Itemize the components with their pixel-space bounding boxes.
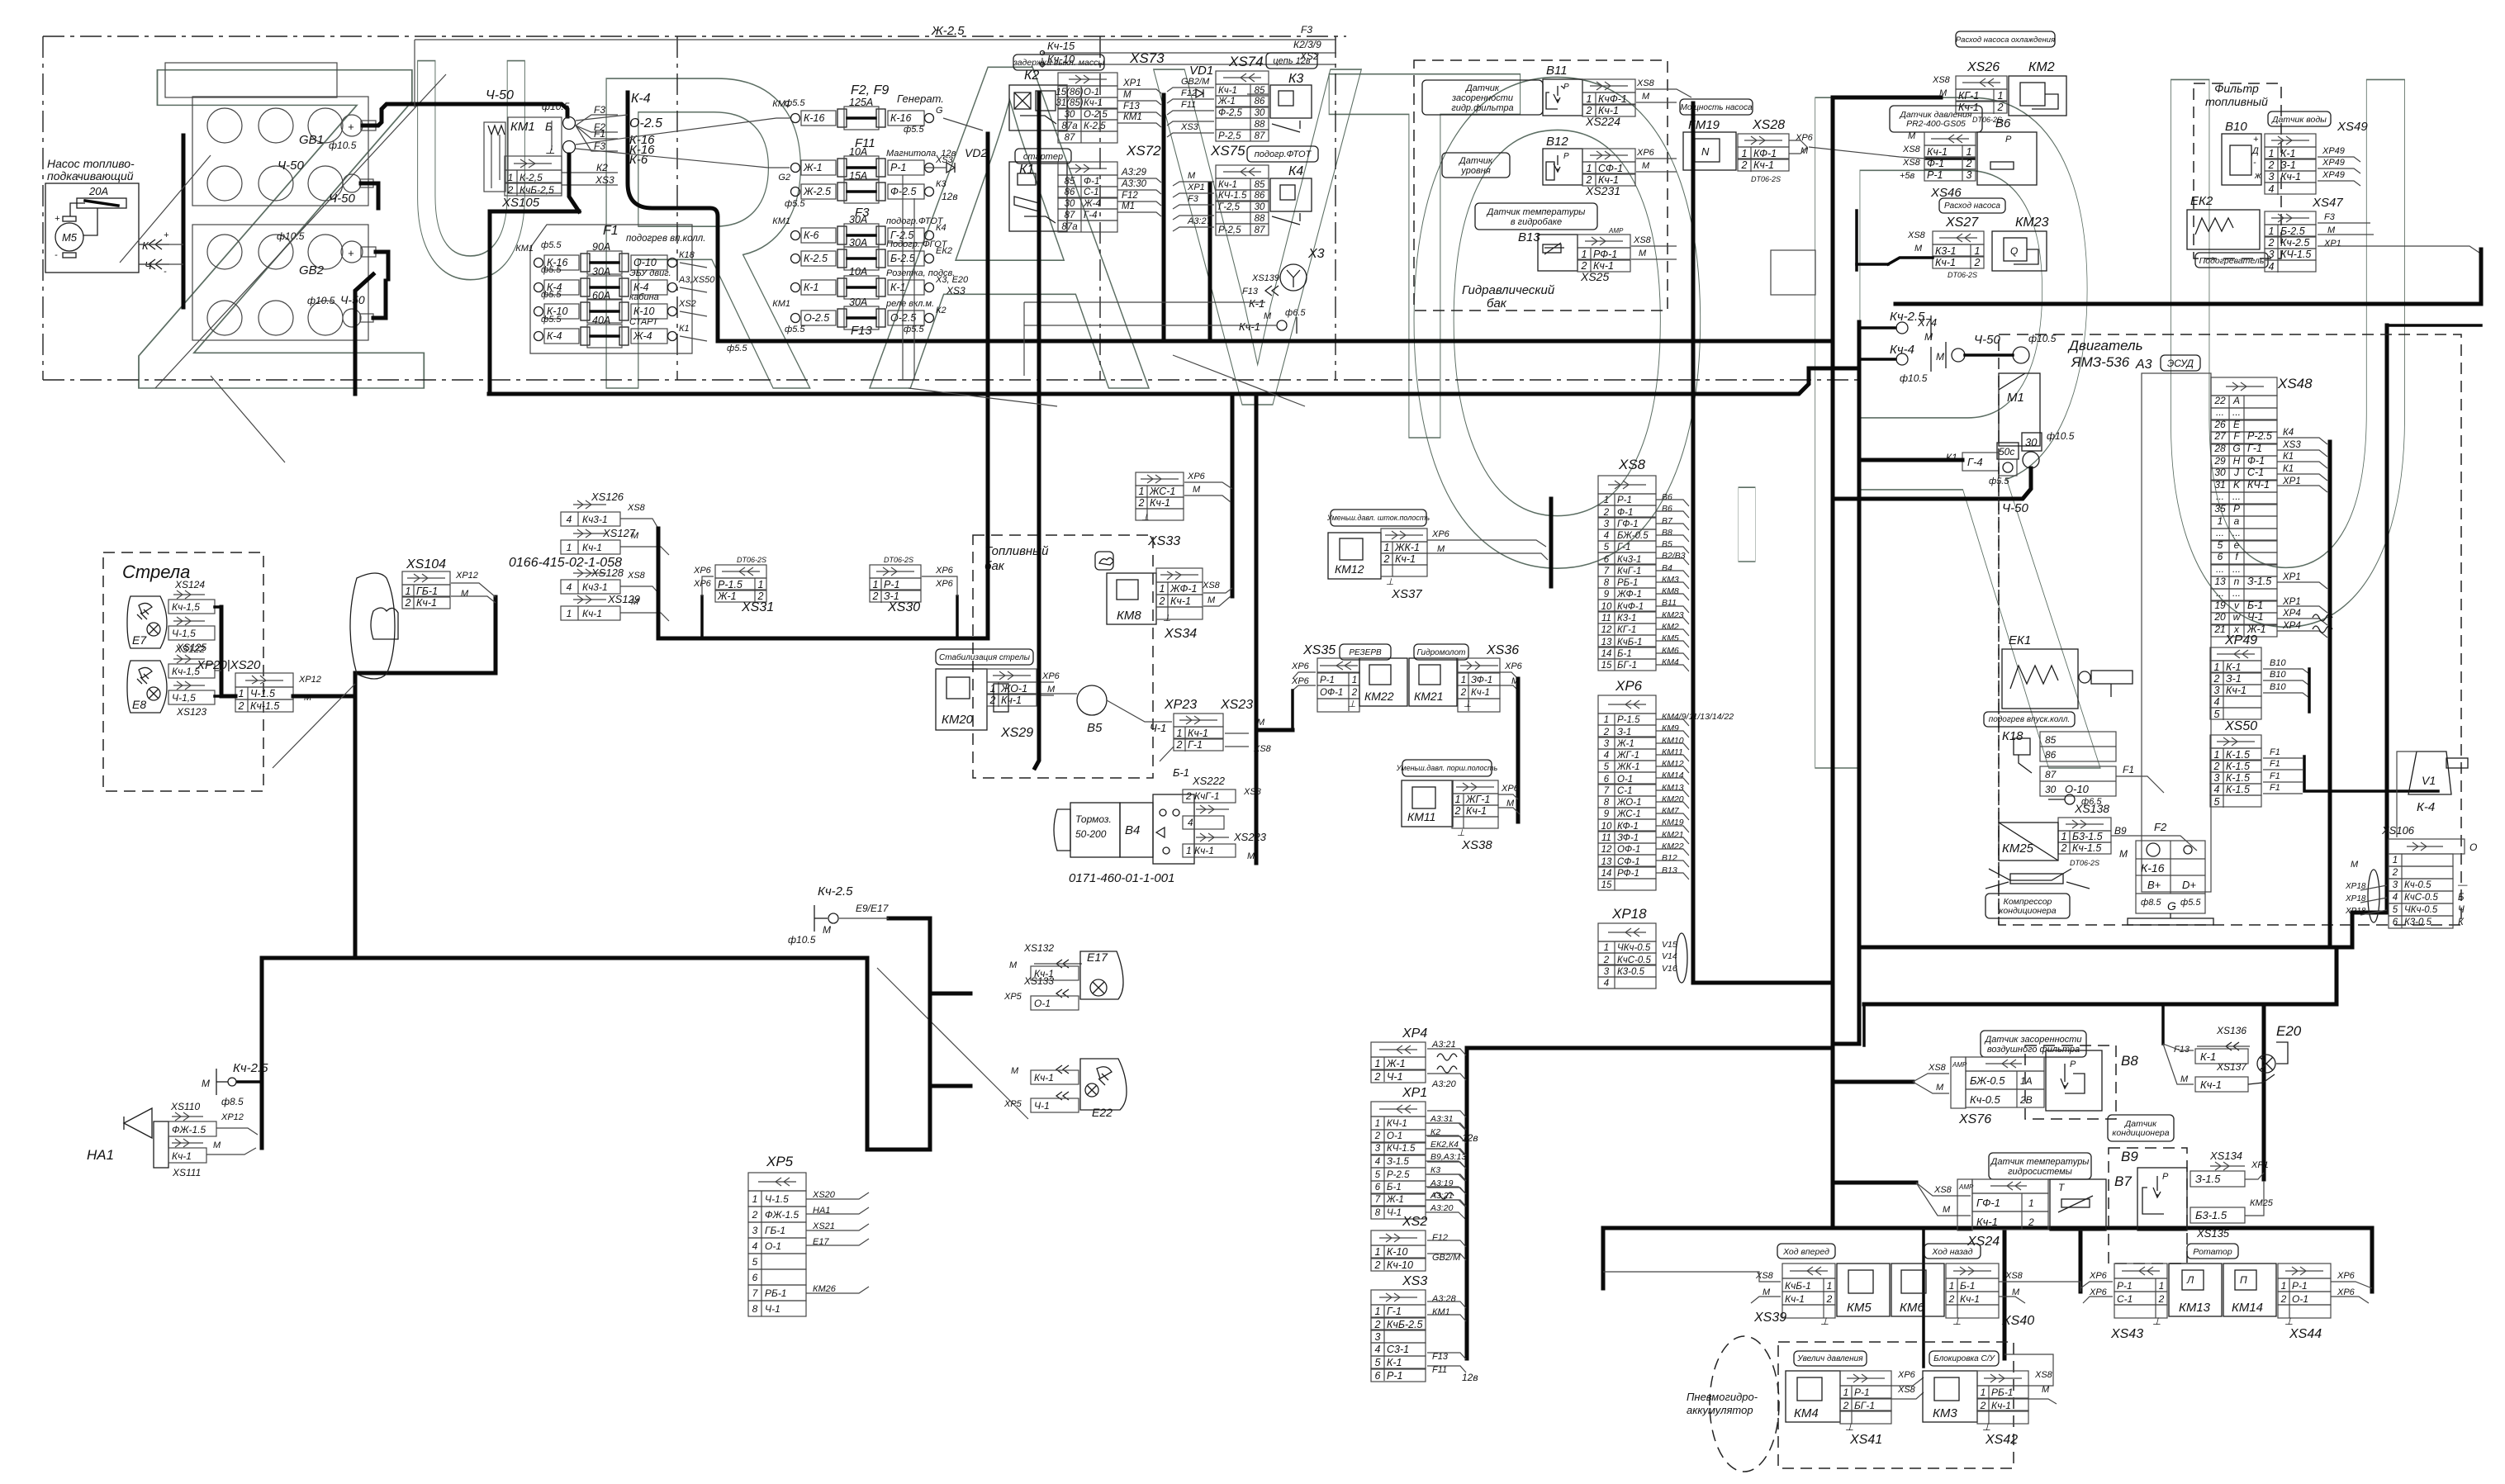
svg-text:К-1: К-1 [1387,1357,1402,1368]
svg-text:XS27: XS27 [1945,216,1979,230]
svg-text:2: 2 [1138,497,1145,509]
svg-text:2: 2 [1383,553,1390,565]
svg-text:2: 2 [1159,595,1165,607]
svg-text:воздушного фильтра: воздушного фильтра [1987,1045,2080,1055]
svg-text:12: 12 [1601,845,1612,855]
svg-text:НА1: НА1 [87,1147,114,1163]
svg-text:1: 1 [1587,93,1592,105]
label intake heater box [1984,712,2075,727]
svg-text:20: 20 [2213,611,2226,623]
svg-text:J: J [2233,467,2240,478]
svg-text:+: + [164,230,169,240]
svg-text:3: 3 [2393,880,2398,890]
svg-text:14: 14 [1601,869,1612,879]
svg-text:13: 13 [2214,576,2226,587]
svg-text:Б3-1.5: Б3-1.5 [2072,831,2103,842]
svg-text:В6: В6 [1662,492,1672,502]
svg-text:XS224: XS224 [1585,115,1620,128]
svg-text:З-1.5: З-1.5 [2247,576,2271,587]
svg-text:КЧ-1: КЧ-1 [2247,479,2270,491]
svg-text:М: М [1642,92,1650,102]
label cooling pump flow box [1956,31,2055,47]
svg-text:⊥: ⊥ [1952,1316,1961,1327]
svg-text:Л: Л [2186,1274,2194,1286]
svg-text:XS29: XS29 [1000,726,1033,740]
svg-text:КМ12: КМ12 [1662,759,1684,769]
pneumo dashed box [1778,1342,2014,1468]
svg-text:ХР6: ХР6 [1636,148,1655,158]
svg-text:КчБ-2,5: КчБ-2,5 [520,184,554,196]
svg-text:8: 8 [1604,798,1610,808]
starter motor M1 [1999,373,2040,446]
svg-text:ЭБУ двиг.: ЭБУ двиг. [629,268,671,278]
wire elbow to XS46 area [1855,211,1858,270]
circle f10.5 on M1 [2023,452,2039,468]
svg-text:Ч-50: Ч-50 [1974,333,2000,347]
wire stub XS43 drop [2079,1228,2083,1292]
svg-text:1: 1 [1604,943,1609,953]
svg-text:XS124: XS124 [174,579,205,590]
svg-text:F1: F1 [2123,764,2134,775]
svg-text:Ч-1: Ч-1 [765,1303,780,1315]
svg-text:СФ-1: СФ-1 [1598,163,1623,174]
svg-text:БГ-1: БГ-1 [1617,661,1637,671]
svg-text:ф5.5: ф5.5 [727,344,747,353]
svg-text:Кч-1: Кч-1 [2200,1079,2222,1091]
svg-text:В9: В9 [2114,825,2127,837]
wire XP20 row [221,695,235,699]
svg-text:Кч-2.5: Кч-2.5 [233,1061,268,1075]
svg-text:9: 9 [1604,590,1610,600]
svg-text:ф10.5: ф10.5 [1900,372,1928,384]
svg-text:2: 2 [1374,1131,1381,1141]
svg-text:В12: В12 [1662,853,1677,863]
wire stub E20 vertical [2161,1004,2165,1044]
svg-text:ЖФ-1: ЖФ-1 [1616,590,1642,600]
svg-text:...: ... [2232,527,2241,538]
svg-text:2: 2 [1374,1071,1381,1083]
fuse F1 row2 30A [534,283,543,292]
svg-text:АМР: АМР [1608,227,1624,235]
svg-text:XS137: XS137 [2216,1061,2247,1073]
svg-text:Кч-1: Кч-1 [172,1150,192,1162]
svg-text:ХР23: ХР23 [1164,698,1197,712]
svg-text:Двигатель: Двигатель [2067,338,2143,353]
svg-text:XS139: XS139 [1251,273,1279,283]
svg-text:XS105: XS105 [501,196,540,210]
svg-text:6: 6 [2393,917,2398,927]
svg-text:Б-1: Б-1 [1617,649,1632,659]
connector XS125 [173,620,205,622]
svg-text:Р-2,5: Р-2,5 [1218,225,1241,235]
svg-text:Кч-1: Кч-1 [1785,1293,1805,1305]
wire loop lamps E17 E22 [867,918,930,1150]
svg-text:М: М [823,924,831,936]
svg-text:2: 2 [1454,805,1461,817]
svg-text:ЖО-1: ЖО-1 [1000,683,1027,695]
svg-text:F2, F9: F2, F9 [851,83,889,97]
svg-text:КМ11: КМ11 [1407,810,1435,823]
svg-text:⊥: ⊥ [545,143,555,156]
svg-text:P: P [2233,503,2240,514]
valve KM22 [1359,658,1407,706]
svg-text:М: М [2042,1385,2050,1395]
svg-text:Кч-0.5: Кч-0.5 [2404,880,2431,890]
svg-text:подогр.ФТОТ: подогр.ФТОТ [1255,149,1312,159]
svg-text:XS50: XS50 [2224,719,2257,733]
svg-text:Q: Q [2010,245,2018,257]
svg-text:КМ1: КМ1 [772,216,790,226]
svg-text:XS41: XS41 [1849,1433,1882,1447]
svg-text:К-2,5: К-2,5 [520,172,543,183]
svg-text:10: 10 [1601,602,1612,612]
svg-text:М: М [461,589,469,599]
svg-text:Е17: Е17 [1087,951,1108,964]
fuel tank dashed box (Топливный бак) [973,535,1153,778]
svg-text:14: 14 [1601,649,1612,659]
svg-text:XS76: XS76 [1958,1112,1991,1126]
svg-text:V15: V15 [1662,940,1677,950]
svg-text:1: 1 [758,579,764,590]
svg-text:В10: В10 [2270,670,2286,680]
svg-text:реле вкл.м.: реле вкл.м. [885,299,934,309]
svg-text:М: М [1936,351,1944,363]
wire vertical x1196 lower [986,341,990,638]
svg-text:ф8.5: ф8.5 [2141,898,2161,908]
wire stub XS39 drop [1601,1228,1606,1288]
svg-text:К3: К3 [1288,72,1303,86]
connector XS40 [1946,1264,1999,1278]
mirror + connector XS104 [350,573,395,679]
svg-text:6: 6 [752,1272,758,1283]
svg-text:ХР1: ХР1 [2282,597,2301,607]
svg-text:F13: F13 [1432,1352,1449,1362]
svg-text:15: 15 [1601,880,1612,890]
fuel sender B5 [1077,685,1107,715]
svg-text:2: 2 [405,597,411,609]
svg-text:КМ3: КМ3 [1662,575,1679,585]
hydraulic tank dashed box (Гидравлический бак) [1414,60,1668,311]
svg-text:5: 5 [2214,796,2220,808]
svg-text:КчБ-1: КчБ-1 [1617,638,1642,647]
svg-text:2: 2 [1826,1293,1833,1305]
svg-text:1: 1 [2159,1280,2165,1292]
svg-text:Р: Р [2005,135,2012,145]
svg-text:А3:20: А3:20 [1430,1203,1454,1213]
svg-text:XS43: XS43 [2110,1327,2143,1341]
svg-text:О-10: О-10 [2065,783,2090,795]
svg-text:2: 2 [1843,1400,1849,1411]
svg-text:XS8: XS8 [1243,787,1262,797]
label air filter sensor box [1981,1031,2086,1057]
svg-text:в гидробаке: в гидробаке [1511,217,1562,227]
svg-text:К-1: К-1 [2226,661,2241,673]
svg-text:В4: В4 [1662,563,1672,573]
svg-text:К-4: К-4 [547,330,562,342]
svg-text:А3:31: А3:31 [1430,1114,1453,1124]
svg-text:КМ14: КМ14 [1662,770,1684,780]
wire Ch-50 drop from GB2 [355,274,373,394]
svg-text:XS8: XS8 [1636,78,1655,88]
svg-text:М: М [1437,544,1445,554]
svg-text:КМ8: КМ8 [1117,609,1141,623]
svg-text:30А: 30А [592,266,610,277]
svg-text:ф5.5: ф5.5 [541,315,562,325]
svg-text:86: 86 [1065,187,1075,197]
svg-text:D+: D+ [2182,879,2196,891]
svg-text:2: 2 [1741,159,1748,171]
svg-text:10А: 10А [849,266,867,277]
svg-text:19: 19 [2214,600,2226,611]
svg-text:М: М [1914,244,1923,254]
svg-text:КМ10: КМ10 [1662,736,1684,746]
svg-text:Г-1: Г-1 [1617,543,1630,552]
svg-text:Ф-1: Ф-1 [1927,158,1944,169]
connector XS38 [1452,780,1498,794]
fuse 30A FGOT [791,254,800,263]
svg-text:XS132: XS132 [1023,942,1054,954]
svg-text:Кч-1: Кч-1 [1976,1216,1998,1228]
svg-text:К2: К2 [1024,69,1039,83]
svg-text:Кч-1: Кч-1 [416,597,437,609]
svg-text:Р: Р [1563,152,1569,161]
svg-text:2: 2 [507,184,514,196]
label water sensor box [2268,111,2331,126]
svg-text:0171-460-01-1-001: 0171-460-01-1-001 [1069,871,1174,885]
svg-text:Ж-2.5: Ж-2.5 [931,24,965,38]
svg-text:ХР1: ХР1 [1187,183,1205,192]
label starter box (стартер) [1015,149,1071,164]
valve KM3 [1923,1371,1977,1422]
sensor B7 + connector XS24 [1957,1179,1972,1230]
svg-text:РФ-1: РФ-1 [1617,869,1639,879]
svg-text:КФ-1: КФ-1 [1753,148,1777,159]
svg-text:Г-2,5: Г-2,5 [1218,202,1241,212]
svg-text:Ж-2.5: Ж-2.5 [803,186,831,197]
svg-text:ОФ-1: ОФ-1 [1617,845,1640,855]
svg-text:засоренности: засоренности [1451,93,1513,103]
svg-text:1: 1 [1981,1387,1986,1398]
wire vertical x1878 KM12 feed [1549,499,1554,586]
svg-text:ХР1: ХР1 [2282,476,2301,486]
svg-text:Ф-1: Ф-1 [1617,508,1633,518]
svg-text:7: 7 [1604,786,1610,796]
brake switch B4 [1070,803,1120,857]
svg-text:КМ2: КМ2 [2028,60,2055,74]
svg-text:XS8: XS8 [1902,145,1921,154]
lamp E7 [127,596,167,648]
connector XS128 [573,572,606,574]
svg-text:К-2,5: К-2,5 [1084,121,1106,131]
svg-text:3: 3 [2269,171,2275,183]
svg-text:Ч-1: Ч-1 [1387,1208,1402,1218]
svg-text:К18: К18 [2002,729,2023,743]
svg-text:87: 87 [2045,769,2057,780]
svg-text:Р-1: Р-1 [2117,1280,2133,1292]
svg-text:Е22: Е22 [1092,1106,1113,1119]
label heater box [2195,253,2268,268]
svg-text:В5: В5 [1087,721,1103,735]
svg-text:ХР12: ХР12 [298,675,321,685]
svg-text:30: 30 [2025,436,2038,448]
svg-text:КЧ-1: КЧ-1 [1387,1119,1407,1129]
svg-text:К-1: К-1 [2280,148,2295,159]
svg-text:О-10: О-10 [633,257,657,268]
svg-text:ф5.5: ф5.5 [785,199,805,209]
svg-text:1: 1 [2393,856,2398,865]
svg-text:аккумулятор: аккумулятор [1687,1404,1753,1416]
svg-text:1: 1 [1742,148,1748,159]
svg-text:К-16: К-16 [890,112,911,124]
svg-text:ЕК2: ЕК2 [2190,194,2213,208]
svg-text:12в: 12в [1462,1372,1478,1383]
svg-text:V1: V1 [2422,774,2436,787]
svg-text:XS134: XS134 [2209,1150,2242,1162]
sensor B9 + XS134 XS135 [2109,1148,2187,1264]
wire Kch-2.5 stub X74 [1859,326,1895,330]
svg-text:12в: 12в [942,191,958,202]
bus wire y413 [718,339,1833,344]
svg-text:ЖО-1: ЖО-1 [1616,798,1641,808]
svg-text:Р-2.5: Р-2.5 [2247,430,2272,442]
svg-text:1: 1 [1375,1306,1381,1317]
svg-text:К-1.5: К-1.5 [2226,749,2250,761]
svg-text:ГБ-1: ГБ-1 [416,586,438,597]
svg-text:VD2: VD2 [965,146,987,159]
svg-text:1: 1 [990,683,996,695]
svg-text:1: 1 [1139,486,1145,497]
svg-text:Р-1: Р-1 [884,579,899,590]
svg-text:КМ1: КМ1 [1432,1307,1450,1317]
svg-text:Фильтр: Фильтр [2214,82,2259,95]
svg-text:3: 3 [1604,739,1610,749]
svg-text:F11: F11 [1181,100,1196,110]
fuse panel F1 outline [530,225,692,353]
svg-text:...: ... [2216,563,2224,575]
svg-text:В12: В12 [1546,135,1568,149]
svg-text:К2: К2 [936,306,946,315]
svg-text:XS8: XS8 [1897,1385,1916,1395]
svg-text:⊥: ⊥ [1982,1421,1990,1433]
svg-text:XS8: XS8 [1202,581,1221,590]
svg-text:ХР6: ХР6 [1795,133,1814,143]
connector XS224 [1582,79,1635,92]
motor M5 [55,223,83,251]
svg-text:1: 1 [567,542,572,553]
svg-text:К-4: К-4 [2417,800,2435,814]
svg-text:Р-1: Р-1 [2292,1280,2308,1292]
svg-text:Ч-1: Ч-1 [2247,611,2264,623]
svg-text:Насос топливо-: Насос топливо- [47,157,135,170]
svg-text:К-4: К-4 [631,92,651,106]
svg-text:О-1: О-1 [765,1240,781,1252]
svg-text:88: 88 [1255,120,1265,130]
svg-text:ХР4: ХР4 [2282,621,2301,631]
svg-text:1: 1 [1177,728,1183,739]
connector XS126 [573,504,606,505]
svg-text:XS3: XS3 [946,285,965,296]
svg-text:А3:21: А3:21 [1431,1040,1456,1050]
svg-text:⊥: ⊥ [1845,1421,1853,1433]
svg-text:Кч3-1: Кч3-1 [582,514,608,525]
svg-text:Ч-1.5: Ч-1.5 [250,688,275,699]
svg-text:⊥: ⊥ [2284,1316,2293,1327]
svg-text:К-1: К-1 [1249,297,1264,310]
svg-text:XS23: XS23 [1220,698,1253,712]
svg-text:К-1.5: К-1.5 [2226,761,2250,772]
svg-text:М: М [1639,249,1647,258]
svg-text:9: 9 [1604,809,1610,819]
svg-text:XS42: XS42 [1985,1433,2018,1447]
svg-text:М: М [1047,685,1056,695]
svg-text:Ч-1.5: Ч-1.5 [765,1193,789,1205]
valve KM6 [1891,1264,1944,1316]
ground f6.5 [2048,799,2065,800]
svg-text:ХР6: ХР6 [1501,784,1520,794]
svg-text:КМ9: КМ9 [1662,723,1679,733]
svg-text:...: ... [2232,491,2241,502]
vertical wire x1521 long [1255,394,1259,863]
svg-text:ХР20|XS20: ХР20|XS20 [196,658,261,672]
svg-text:КМ13: КМ13 [2179,1301,2211,1315]
svg-text:29: 29 [2213,455,2226,467]
connector XS231 [1582,149,1635,162]
svg-text:В8: В8 [1662,528,1672,538]
engine dashed inner left border [1998,462,2000,925]
svg-text:XS231: XS231 [1585,184,1620,197]
svg-text:ХР6: ХР6 [1431,529,1450,539]
svg-text:К1: К1 [1019,163,1034,177]
svg-text:XS73: XS73 [1129,50,1165,66]
gray wires KM1 circles to fuse inputs [576,115,628,121]
svg-text:XS122: XS122 [174,643,205,655]
svg-text:К4: К4 [936,223,946,233]
svg-text:З-1: З-1 [1617,728,1631,737]
svg-text:О-2.5: О-2.5 [629,116,662,130]
svg-text:XS31: XS31 [741,600,774,614]
wire stub XS41 drop x2329 [1922,1228,1925,1367]
svg-text:кондиционера: кондиционера [2112,1128,2169,1138]
svg-text:Р-1: Р-1 [1320,676,1335,685]
svg-text:10А: 10А [849,146,867,158]
svg-text:6: 6 [1375,1183,1381,1192]
svg-text:ЗФ-1: ЗФ-1 [1471,676,1492,685]
wire bus y1216 E20 row [1864,1003,2337,1007]
svg-text:КМ21: КМ21 [1662,830,1684,840]
svg-text:Генерат.: Генерат. [897,92,944,105]
vertical wire x1492 (XS33/XS34 feed) [1231,394,1235,596]
svg-text:XS72: XS72 [1126,143,1161,159]
svg-text:Б-1: Б-1 [1173,766,1189,779]
wire Kch-15 [1042,52,1336,54]
svg-text:Блокировка С/У: Блокировка С/У [1933,1354,1995,1363]
svg-text:XS48: XS48 [2277,376,2313,391]
svg-text:бак: бак [1487,296,1507,311]
svg-text:3: 3 [1604,519,1610,529]
svg-text:гидросистемы: гидросистемы [2008,1167,2072,1177]
svg-text:30А: 30А [849,296,867,308]
svg-text:ХР1: ХР1 [2251,1160,2269,1170]
svg-text:F13: F13 [851,324,873,338]
wire right vertical to XS106 [2385,325,2389,913]
svg-text:Гидромолот: Гидромолот [1417,648,1466,657]
svg-text:1: 1 [2028,1197,2034,1209]
svg-text:XS8: XS8 [627,571,646,581]
pressure sensor label box PR2-400-GS05 [1890,106,1982,132]
wire vertical x317 [260,958,264,1148]
wires horn to bus [216,1128,258,1135]
svg-text:XS2: XS2 [1402,1215,1427,1229]
